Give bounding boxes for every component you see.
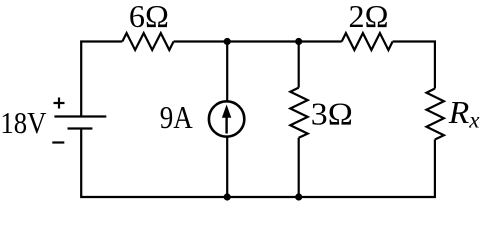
node D (bottom junction at 3-ohm) [295,193,302,200]
svg-text:6Ω: 6Ω [129,0,169,34]
resistor Rx zigzag [427,89,444,140]
svg-text:9A: 9A [160,100,193,135]
resistor R2 2ohm zigzag [342,33,393,50]
resistor R1 6ohm zigzag [122,33,173,50]
wire bottom-left segment [81,129,299,198]
svg-text:R: R [448,94,470,130]
resistor R3 3ohm branch wires [298,42,300,88]
plus sign [54,102,65,104]
minus sign [52,141,64,143]
node A (top junction at current source) [224,38,231,45]
current source I1 branch wires [226,42,228,102]
svg-text:2Ω: 2Ω [349,0,389,34]
current source I1 circle [209,101,244,136]
node B (top junction at 3-ohm) [295,38,302,45]
wire top-middle segment [174,40,342,42]
battery V1 short plate [68,127,93,129]
svg-text:x: x [468,107,480,132]
current source I1 arrow [225,116,227,134]
node C (bottom junction at current source) [224,193,231,200]
svg-text:18V: 18V [0,105,47,140]
wire top-left segment [81,42,122,117]
wire top-right segment [393,42,435,89]
resistor R3 3ohm zigzag [290,88,307,138]
wire right-bottom segment [299,140,435,198]
svg-text:3Ω: 3Ω [311,95,353,131]
battery V1 long plate [54,115,106,117]
